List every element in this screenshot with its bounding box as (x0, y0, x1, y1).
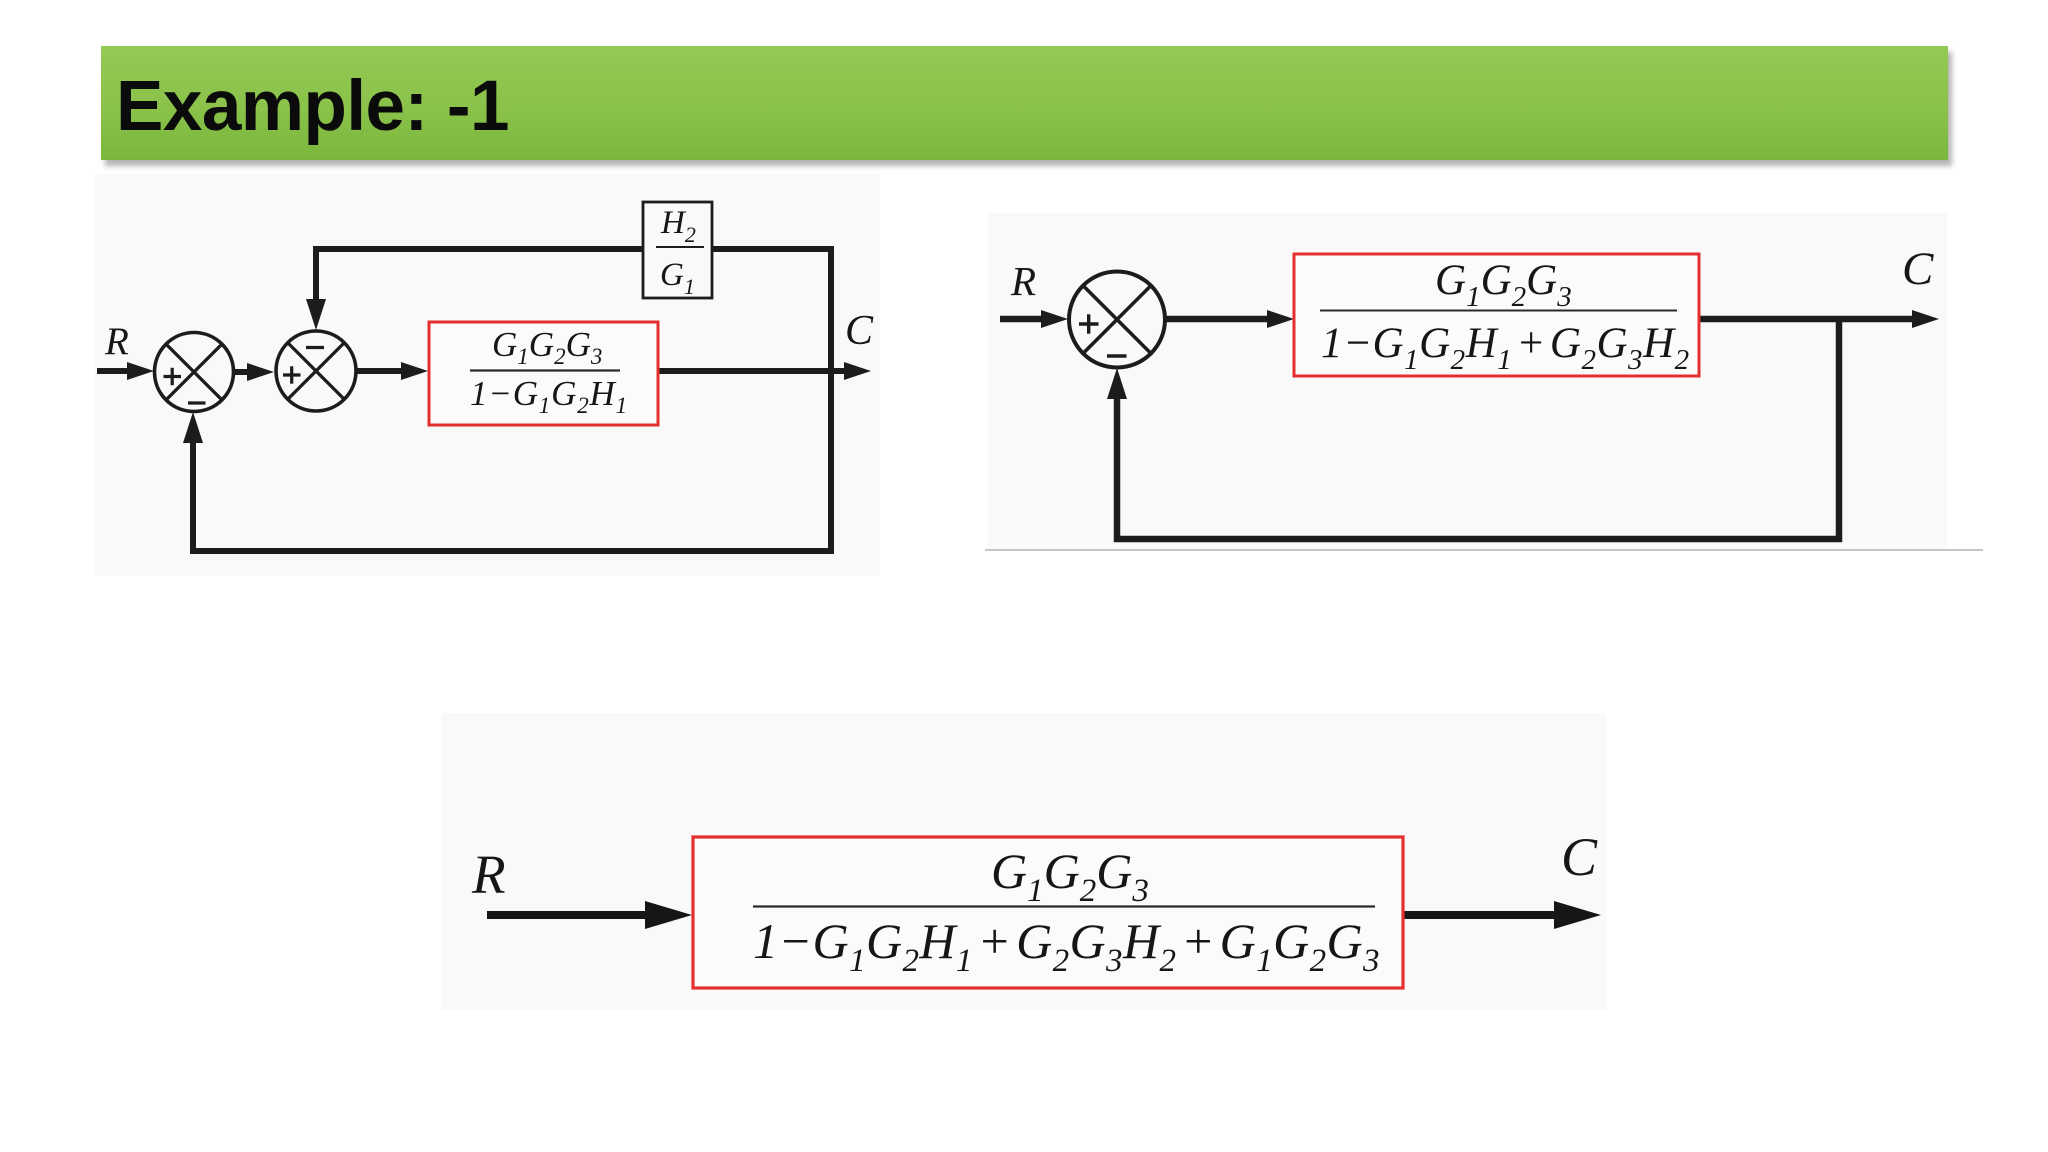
arrowhead input right (1041, 310, 1068, 328)
S3 circle (1069, 272, 1165, 368)
arrowhead feedback into sum right (1107, 368, 1127, 399)
wire R input (97, 368, 132, 374)
summing junction S3 (1069, 272, 1165, 368)
S1 minus sign (188, 401, 206, 404)
arrowhead sum1 to sum2 (247, 363, 274, 381)
B4 fraction bar (753, 905, 1375, 907)
block B2 G1G2G3/(1-G1G2H1) red box (429, 322, 658, 425)
S1 circle (155, 333, 234, 412)
B3 fraction bar (1320, 310, 1677, 312)
summing junction S1 (155, 333, 234, 412)
svg-text:C: C (1902, 243, 1934, 295)
wire output to C (658, 368, 845, 374)
svg-text:R: R (104, 320, 129, 363)
arrowhead sum2 to block (401, 362, 428, 380)
arrowhead input bottom (645, 901, 692, 929)
arrowhead output right (1912, 310, 1939, 328)
svg-text:C: C (845, 308, 874, 354)
bottom diagram panel background (441, 713, 1606, 1010)
arrowhead top into sum2 (306, 299, 326, 330)
wire top feedback horizontal (316, 249, 643, 302)
wire right feedback (1117, 319, 1839, 539)
B4 box outline (693, 837, 1403, 988)
left diagram panel background (95, 174, 880, 576)
S1 cross lines (166, 344, 221, 399)
panel2 bottom edge (985, 549, 1983, 551)
S2 circle (276, 331, 356, 411)
svg-text:C: C (1561, 827, 1598, 887)
svg-text:G1G2G3: G1G2G3 (492, 325, 602, 369)
S2 minus sign (306, 346, 324, 349)
arrowhead into red box right (1267, 310, 1294, 328)
wire sum2 to block G (356, 368, 404, 374)
block B3 G1G2G3/(1-G1G2H1+G2G3H2) red box right (1294, 254, 1699, 376)
wire R input bottom (487, 911, 650, 919)
arrowhead input R (127, 362, 154, 380)
S2 plus sign (283, 373, 301, 376)
S1 plus sign (164, 375, 182, 378)
arrowhead output bottom (1554, 901, 1601, 929)
block B1 H2/G1 (643, 202, 712, 299)
arrowhead bottom into sum1 (183, 412, 203, 443)
arrowhead output C (844, 362, 871, 380)
block B4 G1G2G3/(1-G1G2H1+G2G3H2+G1G2G3) red box bottom (693, 837, 1403, 988)
B1 box outline (643, 202, 712, 298)
B1 fraction bar (656, 246, 704, 248)
wire sum to red box (1165, 316, 1271, 323)
wire box to C bottom (1403, 911, 1558, 919)
wire bottom feedback (193, 440, 834, 551)
S3 cross lines (1083, 286, 1151, 354)
S2 cross lines (288, 343, 344, 399)
wire box to C (1699, 316, 1913, 323)
svg-text:R: R (1010, 258, 1036, 304)
right diagram panel background (988, 213, 1947, 549)
minus sign right sum (1107, 354, 1127, 357)
title bar (101, 46, 1948, 160)
summing junction S2 (276, 331, 356, 411)
B3 box outline (1294, 254, 1699, 376)
wire R input right (1000, 316, 1044, 323)
svg-text:R: R (471, 844, 506, 905)
wire sum1 to sum2 (233, 369, 251, 375)
B2 fraction bar (470, 369, 620, 371)
wire block H out to corner (712, 249, 831, 551)
B2 box outline (429, 322, 658, 425)
plus sign right sum (1079, 322, 1099, 325)
